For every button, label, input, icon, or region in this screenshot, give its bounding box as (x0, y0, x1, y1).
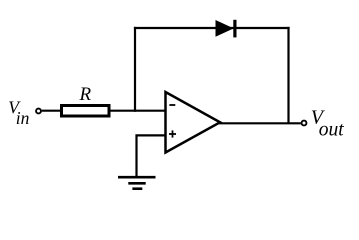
svg-text:in: in (16, 108, 30, 128)
wire Vin terminal to resistor (42, 110, 60, 112)
ground (118, 177, 156, 189)
wire feedback right vertical (287, 27, 289, 123)
label R (79, 84, 92, 105)
terminal Vin (36, 109, 41, 114)
terminal Vout (302, 121, 307, 126)
diode (216, 20, 237, 38)
wire feedback top (134, 27, 290, 29)
label Vout (311, 106, 345, 140)
svg-text:R: R (79, 84, 92, 105)
resistor R (62, 106, 110, 117)
svg-text:out: out (319, 120, 345, 141)
wire feedback left vertical (134, 27, 136, 112)
wire non-inverting input to ground (137, 135, 166, 176)
label Vin (8, 97, 29, 128)
wire resistor to inverting input (110, 110, 165, 112)
op-amp U1 (166, 92, 221, 153)
wire op-amp output to Vout terminal (219, 122, 301, 124)
